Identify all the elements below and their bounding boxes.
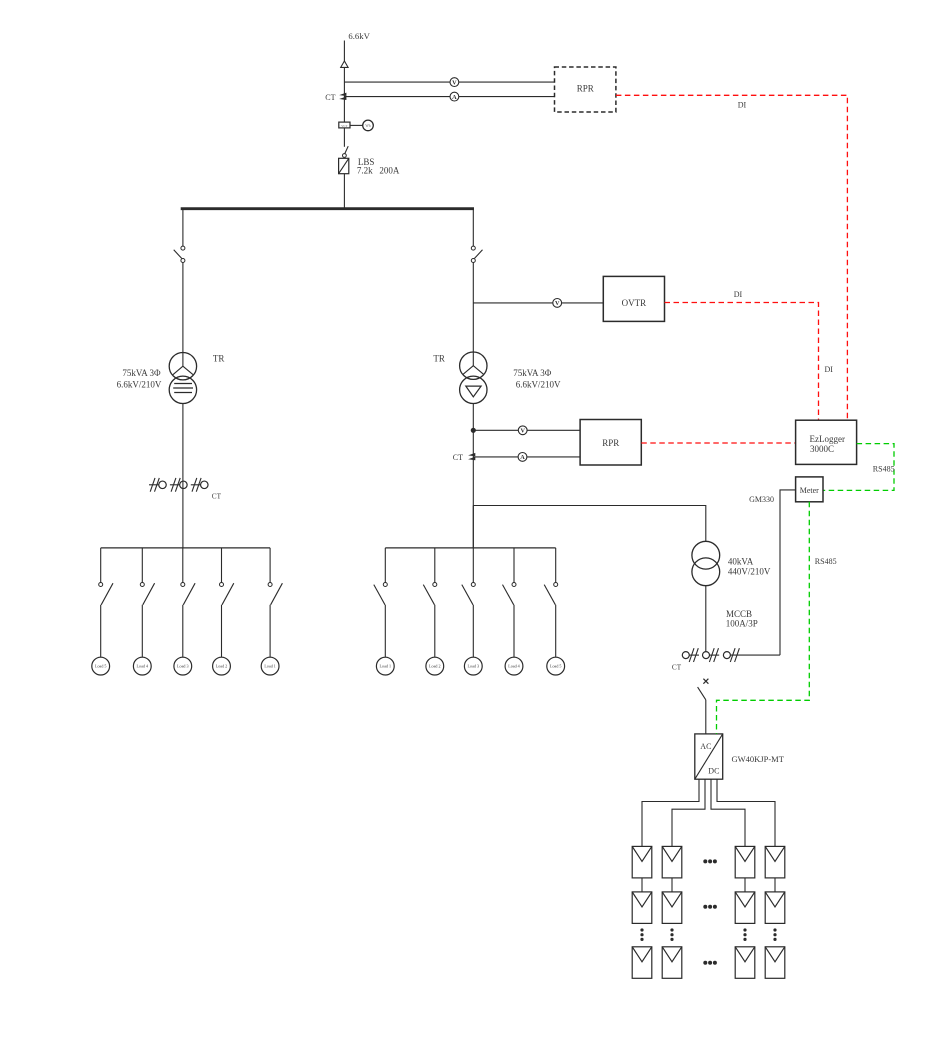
- meter A1 ammeter: [450, 92, 459, 101]
- wire VT tap to RPR: [344, 81, 554, 83]
- wire Meter CT sensing line: [780, 490, 796, 655]
- switch DS2 right disconnect: [471, 246, 475, 250]
- inverter U1 GW40KJP-MT: [695, 734, 723, 779]
- svg-text:AC: AC: [700, 742, 711, 751]
- wire RS485 green dashed Meter to inverter: [717, 502, 810, 734]
- wire right feeder drop from busbar: [472, 209, 474, 246]
- wire DI red dashed OVTR to EzLogger: [665, 303, 819, 420]
- wire DS1 to transformer TR1: [182, 263, 184, 367]
- wire VCT to LBS: [343, 128, 345, 147]
- load Load 2: [213, 657, 231, 675]
- wire OVTR tap: [473, 302, 603, 304]
- relay RPR2 reverse power relay: [580, 420, 641, 466]
- wire to inverter AC input: [705, 700, 707, 734]
- load Load 3: [174, 657, 192, 675]
- svg-text:GW40KJP-MT: GW40KJP-MT: [732, 754, 785, 764]
- meter A2 ammeter: [518, 453, 527, 462]
- CT CT3 inverter metering CTs: [682, 652, 689, 659]
- PV module string4 row1: [765, 846, 785, 878]
- svg-text:6.6kV/210V: 6.6kV/210V: [516, 379, 561, 389]
- svg-text:RPR: RPR: [602, 438, 619, 448]
- switch right feeder branch 4: [513, 548, 515, 583]
- svg-text:Load 1: Load 1: [380, 664, 391, 669]
- wire DI red dashed RPR2 to EzLogger: [641, 442, 795, 444]
- wire incoming 6.6kV feeder drop: [343, 41, 345, 62]
- svg-text:DI: DI: [738, 101, 747, 110]
- bus main 6.6kV busbar: [181, 207, 474, 210]
- PV module string3 row1: [735, 846, 755, 878]
- svg-text:V: V: [520, 428, 525, 435]
- svg-text:100A/3P: 100A/3P: [726, 619, 758, 629]
- switch left feeder branch 5: [269, 548, 271, 583]
- svg-text:V: V: [452, 79, 457, 86]
- PV module string2 row2: [662, 892, 682, 924]
- load Load 5: [547, 657, 565, 675]
- svg-text:RS485: RS485: [815, 557, 837, 566]
- wire to load: [472, 605, 474, 657]
- meter Meter GM330: [796, 477, 823, 502]
- load Load 5: [92, 657, 110, 675]
- node vertical ellipsis dots: [640, 928, 643, 931]
- svg-text:TR: TR: [433, 354, 445, 364]
- load Load 4: [505, 657, 523, 675]
- load Load 1: [261, 657, 279, 675]
- svg-text:75kVA 3Φ: 75kVA 3Φ: [513, 368, 552, 378]
- meter V3 voltmeter: [518, 426, 527, 435]
- wire feeder continues to VCT: [343, 67, 345, 122]
- svg-text:DI: DI: [734, 290, 743, 299]
- transformer TR3 40kVA: [692, 541, 720, 569]
- svg-text:OVTR: OVTR: [622, 298, 647, 308]
- wire DC string 1: [642, 779, 699, 846]
- PV module string3 row3: [735, 947, 755, 979]
- svg-text:RPR: RPR: [577, 84, 594, 94]
- switch left feeder branch 3: [182, 548, 184, 583]
- wire to load: [141, 605, 143, 657]
- wire TR1 to left LV bus: [182, 404, 184, 548]
- transformer TR2 75kVA: [460, 352, 487, 379]
- PV module string1 row1: [632, 846, 652, 878]
- switch left feeder branch 1: [100, 548, 102, 583]
- svg-text:DC: DC: [708, 767, 719, 776]
- svg-text:Load 3: Load 3: [468, 664, 479, 669]
- PV module string1 row3: [632, 947, 652, 979]
- wire VCT to Wh meter: [350, 124, 363, 126]
- svg-text:Load 5: Load 5: [95, 664, 106, 669]
- CT CT2 three-phase metering CTs: [149, 484, 159, 486]
- svg-text:Meter: Meter: [800, 486, 819, 495]
- meter VCT metering box: [339, 122, 350, 128]
- svg-text:TR: TR: [213, 354, 225, 364]
- svg-text:CT: CT: [453, 453, 463, 462]
- node junction dot RPR2 tap: [471, 428, 475, 432]
- svg-text:Wh: Wh: [365, 124, 370, 128]
- PV module string1 row2: [632, 892, 652, 924]
- svg-text:3000C: 3000C: [810, 444, 834, 454]
- svg-text:A: A: [520, 454, 525, 461]
- load Load 1: [376, 657, 394, 675]
- wire RS485 green dashed EzLogger to Meter: [823, 444, 894, 491]
- wire to load: [513, 605, 515, 657]
- wire TR3 to CT group: [705, 586, 707, 652]
- svg-text:40kVA: 40kVA: [728, 557, 754, 567]
- meter V2 voltmeter: [553, 299, 562, 308]
- breaker MCCB contact mark: [703, 679, 708, 684]
- svg-text:Load 4: Load 4: [137, 664, 148, 669]
- wire CT tap to RPR: [344, 96, 554, 98]
- PV module string2 row3: [662, 947, 682, 979]
- wire LV tap to PV transformer: [473, 506, 706, 542]
- wire TR2 to right LV bus: [472, 404, 474, 548]
- switch DS1 left disconnect: [181, 246, 185, 250]
- wire to load: [269, 605, 271, 657]
- wire to load: [100, 605, 102, 657]
- svg-text:6.6kV: 6.6kV: [348, 31, 370, 41]
- wire to load: [182, 605, 184, 657]
- PV module string3 row2: [735, 892, 755, 924]
- meter Wh watt-hour meter: [363, 120, 374, 131]
- switch right feeder branch 5: [555, 548, 557, 583]
- wire V tap to RPR2: [473, 429, 580, 431]
- svg-text:CT: CT: [672, 663, 682, 671]
- CT CT4 on right feeder: [468, 453, 475, 456]
- switch LBS load break switch with fuse: [345, 146, 348, 153]
- svg-text:VCT: VCT: [341, 124, 347, 128]
- svg-text:A: A: [452, 94, 457, 101]
- svg-text:CT: CT: [212, 493, 222, 501]
- svg-text:CT: CT: [325, 93, 335, 102]
- svg-text:Load 1: Load 1: [264, 664, 275, 669]
- wire to load: [434, 605, 436, 657]
- svg-text:Load 2: Load 2: [429, 664, 440, 669]
- node horizontal ellipsis dots: [703, 859, 707, 863]
- svg-text:V: V: [555, 300, 560, 307]
- bus left LV distribution bar: [101, 547, 270, 549]
- switch inverter AC disconnect: [698, 687, 706, 700]
- svg-text:6.6kV/210V: 6.6kV/210V: [117, 380, 162, 390]
- terminal arrow triangle: [341, 61, 348, 67]
- svg-text:Load 4: Load 4: [508, 664, 519, 669]
- bus right LV distribution bar: [385, 547, 555, 549]
- wire DC string 2: [672, 779, 705, 846]
- load Load 4: [133, 657, 151, 675]
- wire to load: [555, 605, 557, 657]
- svg-text:Load 2: Load 2: [216, 664, 227, 669]
- logger EzLogger 3000C: [796, 420, 857, 464]
- PV module string4 row2: [765, 892, 785, 924]
- wire DI red dashed RPR to EzLogger: [616, 95, 848, 420]
- svg-text:Load 5: Load 5: [550, 664, 561, 669]
- svg-text:RS485: RS485: [873, 465, 895, 474]
- load Load 2: [426, 657, 444, 675]
- switch right feeder branch 2: [434, 548, 436, 583]
- svg-text:440V/210V: 440V/210V: [728, 566, 771, 576]
- svg-text:Load 3: Load 3: [177, 664, 188, 669]
- wire panel row1-row2 links: [641, 878, 643, 892]
- wire DC string 3: [711, 779, 745, 846]
- svg-text:EzLogger: EzLogger: [810, 434, 845, 444]
- wire DC string 4: [717, 779, 775, 846]
- transformer TR1 75kVA: [169, 353, 196, 380]
- switch right feeder branch 1: [384, 548, 386, 583]
- wire to load: [221, 605, 223, 657]
- meter V1 voltmeter: [450, 78, 459, 87]
- relay OVTR over-voltage relay: [603, 276, 664, 321]
- svg-text:75kVA 3Φ: 75kVA 3Φ: [122, 368, 161, 378]
- svg-text:MCCB: MCCB: [726, 609, 752, 619]
- svg-text:7.2k 200A: 7.2k 200A: [357, 166, 400, 176]
- PV module string2 row1: [662, 846, 682, 878]
- svg-text:DI: DI: [824, 365, 833, 374]
- relay RPR incoming (dashed enclosure): [555, 67, 616, 112]
- switch right feeder branch 3: [472, 506, 474, 583]
- load Load 3: [464, 657, 482, 675]
- wire DS2 to transformer TR2: [472, 263, 474, 367]
- wire LBS to main busbar: [343, 174, 345, 209]
- switch left feeder branch 4: [221, 548, 223, 583]
- wire to load: [384, 605, 386, 657]
- switch left feeder branch 2: [141, 548, 143, 583]
- CT CT1 on incoming feeder: [339, 93, 346, 96]
- wire left feeder drop from busbar: [182, 209, 184, 246]
- PV module string4 row3: [765, 947, 785, 979]
- svg-text:GM330: GM330: [749, 495, 774, 504]
- wire A tap to RPR2: [473, 456, 580, 458]
